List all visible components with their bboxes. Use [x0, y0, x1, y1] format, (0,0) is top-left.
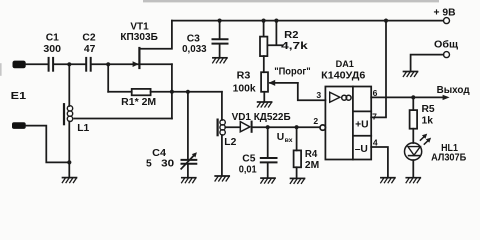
svg-text:5: 5 [146, 159, 152, 170]
resistor R2 [260, 37, 267, 57]
svg-text:R5: R5 [422, 104, 435, 115]
svg-text:Общ: Общ [434, 39, 458, 51]
transistor VT1 channel [138, 48, 140, 68]
capacitor C4 lead top [187, 92, 189, 159]
node junction rail-C3 [218, 19, 222, 23]
ground under C4 [182, 178, 196, 183]
capacitor C1 [49, 58, 54, 71]
capacitor C2 [86, 58, 91, 71]
transistor VT1 drain lead [140, 21, 172, 49]
resistor R4 lead bottom [296, 167, 298, 178]
electrode E1 plate 2 [12, 122, 26, 129]
label Uvx [277, 132, 293, 144]
label +9V [434, 7, 456, 18]
node junction C4 branch [186, 90, 190, 94]
diode VD1 [240, 122, 251, 132]
terminal Obsh [411, 52, 450, 72]
node junction rail-R2 tap [274, 19, 278, 23]
capacitor C4 (trimmer) [182, 160, 197, 164]
svg-text:C2: C2 [82, 32, 95, 43]
svg-text:0,033: 0,033 [182, 44, 207, 55]
svg-text:4: 4 [373, 138, 378, 148]
pin number 7 [372, 111, 377, 121]
svg-text:6: 6 [373, 88, 378, 98]
ground under R3 [257, 102, 271, 107]
svg-text:0,01: 0,01 [239, 164, 257, 175]
wire DA1 pin 4 to ground [371, 147, 388, 177]
label Porog [274, 67, 311, 78]
node junction C5 [266, 125, 270, 129]
wire E1 plate1 to C1 [26, 63, 48, 65]
capacitor C3 leads [219, 21, 221, 58]
node junction L1/E1 ground [67, 160, 71, 164]
wire C2 to VT1 gate [92, 63, 138, 65]
label C4 [146, 148, 174, 170]
svg-text:Выход: Выход [437, 85, 470, 96]
label L2 [224, 137, 236, 148]
op-amp DA1 pin2 inversion bubble [320, 125, 325, 130]
resistor R4 [294, 150, 302, 167]
node junction rail-R2 [262, 19, 266, 23]
label VT1 [120, 21, 158, 43]
svg-text:C4: C4 [152, 148, 166, 159]
label C1 [43, 32, 61, 54]
ground under C5 [261, 178, 275, 183]
svg-text:R3: R3 [237, 71, 251, 82]
node junction gate / R1 loop [106, 62, 110, 66]
LED HL1 triangle [408, 147, 420, 156]
transistor VT1 source lead [140, 63, 172, 65]
resistor R2 side tap wire [267, 21, 282, 46]
label L1 [77, 123, 89, 134]
resistor R3 lead bottom [263, 92, 265, 102]
ground under pin 4 [381, 178, 395, 183]
wire L1 bottom tap horizontal [74, 118, 172, 120]
svg-text:2: 2 [313, 116, 318, 126]
pin number 6 [373, 88, 378, 98]
label R5 [422, 104, 435, 127]
node junction R4 [295, 125, 299, 129]
label R4 [305, 149, 319, 171]
wire R1 right to C4/L2 [151, 91, 222, 93]
svg-text:100k: 100k [233, 84, 256, 95]
capacitor C3 [213, 39, 228, 43]
svg-text:С5: С5 [242, 154, 255, 165]
op-amp DA1 inner divider [353, 87, 371, 160]
inductor L1 lead bottom [68, 122, 70, 178]
scan edge artifact top [143, 0, 439, 2]
wire L2 to VD1 [225, 126, 240, 128]
ground under R4 [290, 178, 304, 183]
inductor L2 core [217, 120, 219, 136]
LED HL1 emission arrows [420, 134, 431, 145]
pin number 3 [316, 90, 321, 100]
capacitor C5 [261, 158, 277, 162]
label C2 [82, 32, 95, 54]
op-amp DA1 body [325, 87, 371, 160]
ground under L2 [215, 176, 229, 181]
LED HL1 cathode bar [409, 155, 420, 157]
node junction rail-DA1 supply [384, 19, 388, 23]
resistor R1 [132, 89, 151, 95]
wire DA1 pin 7 supply [371, 21, 386, 118]
svg-text:С3: С3 [187, 34, 200, 45]
capacitor C4 adjustment arrow [181, 152, 197, 169]
svg-text:30: 30 [161, 159, 174, 170]
pin number 2 [313, 116, 318, 126]
wire source vertical down to L1 tap wire [171, 64, 173, 118]
ground under C3 [213, 58, 227, 63]
svg-text:1k: 1k [422, 116, 434, 127]
svg-text:вх: вх [285, 137, 293, 144]
label C5 [239, 154, 257, 176]
svg-text:47: 47 [84, 44, 96, 55]
node junction source/R1 row [170, 90, 174, 94]
svg-text:DA1: DA1 [336, 58, 354, 69]
pin number 4 [373, 138, 378, 148]
label -U [355, 144, 368, 155]
wire to R1 left [108, 91, 132, 93]
electrode E1 plate 1 [13, 61, 26, 69]
svg-text:3: 3 [316, 90, 321, 100]
svg-text:R4: R4 [305, 149, 318, 160]
svg-text:4,7k: 4,7k [281, 41, 308, 52]
power rail +9V [172, 20, 443, 22]
svg-text:АЛ307Б: АЛ307Б [431, 152, 467, 163]
svg-text:КП303Б: КП303Б [120, 32, 158, 43]
resistor R5 [410, 110, 418, 129]
svg-text:R2: R2 [284, 30, 299, 41]
transistor VT1 gate arrow [133, 61, 139, 67]
ground under Obsh [403, 72, 417, 77]
label +U [355, 120, 368, 131]
wire down to L2 [221, 92, 223, 120]
scan edge artifact left [0, 64, 2, 75]
potentiometer R3 [261, 72, 268, 92]
svg-text:К140УД6: К140УД6 [321, 71, 365, 82]
capacitor C5 lead top [267, 127, 269, 157]
inductor L1 winding [67, 106, 72, 122]
svg-text:U: U [277, 132, 284, 143]
resistor R4 lead top [296, 127, 298, 150]
svg-text:+U: +U [355, 120, 368, 131]
wire C1 to C2 [54, 63, 85, 65]
resistor R2 lead top [263, 21, 265, 37]
label R1 [121, 97, 156, 108]
svg-text:300: 300 [43, 44, 61, 55]
svg-text:2М: 2М [305, 160, 319, 171]
wire R2 to R3 [263, 56, 265, 72]
output arrowhead [443, 95, 450, 100]
potentiometer R3 wiper arrow [269, 80, 298, 86]
wire DA1 pin 6 output [371, 96, 443, 98]
op-amp DA1 infinity symbol [342, 95, 351, 100]
svg-text:–U: –U [355, 144, 368, 155]
inductor L1 core [63, 104, 65, 124]
inductor L2 lead bottom [221, 135, 223, 176]
capacitor C4 lead bottom [187, 165, 189, 178]
label C3 [182, 34, 207, 55]
node junction R5 on output [411, 95, 415, 99]
svg-text:C1: C1 [46, 32, 59, 43]
inductor L2 winding [220, 120, 225, 135]
wire R1 loop left vertical [107, 64, 109, 92]
wire E1 plate2 to ground node [26, 126, 70, 163]
node junction C1-C2 (L1 tap) [67, 62, 71, 66]
svg-text:L2: L2 [224, 137, 236, 148]
op-amp DA1 triangle [330, 92, 340, 102]
svg-text:L1: L1 [77, 123, 89, 134]
label Obsh [434, 39, 458, 51]
inductor L1 lead top [68, 64, 70, 106]
resistor R5 lead bottom [412, 129, 414, 143]
capacitor C5 lead bottom [267, 163, 269, 177]
svg-text:R1* 2М: R1* 2М [121, 97, 156, 108]
label R3 [233, 71, 256, 95]
LED HL1 lead bottom [412, 160, 414, 177]
svg-text:+ 9В: + 9В [434, 7, 456, 18]
svg-text:"Порог": "Порог" [274, 67, 311, 78]
label E1 [11, 91, 27, 102]
ground under HL1 [406, 178, 420, 183]
wire VD1 to DA1 pin 2 [253, 126, 320, 128]
resistor R5 lead top [412, 97, 414, 110]
label HL1 [431, 143, 467, 163]
terminal +9V [444, 18, 450, 24]
ground under L1 [62, 178, 76, 183]
wire wiper to DA1 pin 3 [298, 83, 326, 100]
label R2 [281, 30, 308, 52]
label DA1 [321, 58, 365, 82]
svg-text:Е1: Е1 [11, 91, 27, 102]
svg-text:VT1: VT1 [130, 21, 149, 32]
label VD1 [232, 112, 292, 123]
label Vyhod [437, 85, 470, 96]
svg-text:VD1 КД522Б: VD1 КД522Б [232, 112, 292, 123]
svg-text:7: 7 [372, 111, 377, 121]
LED HL1 circle [405, 143, 422, 160]
